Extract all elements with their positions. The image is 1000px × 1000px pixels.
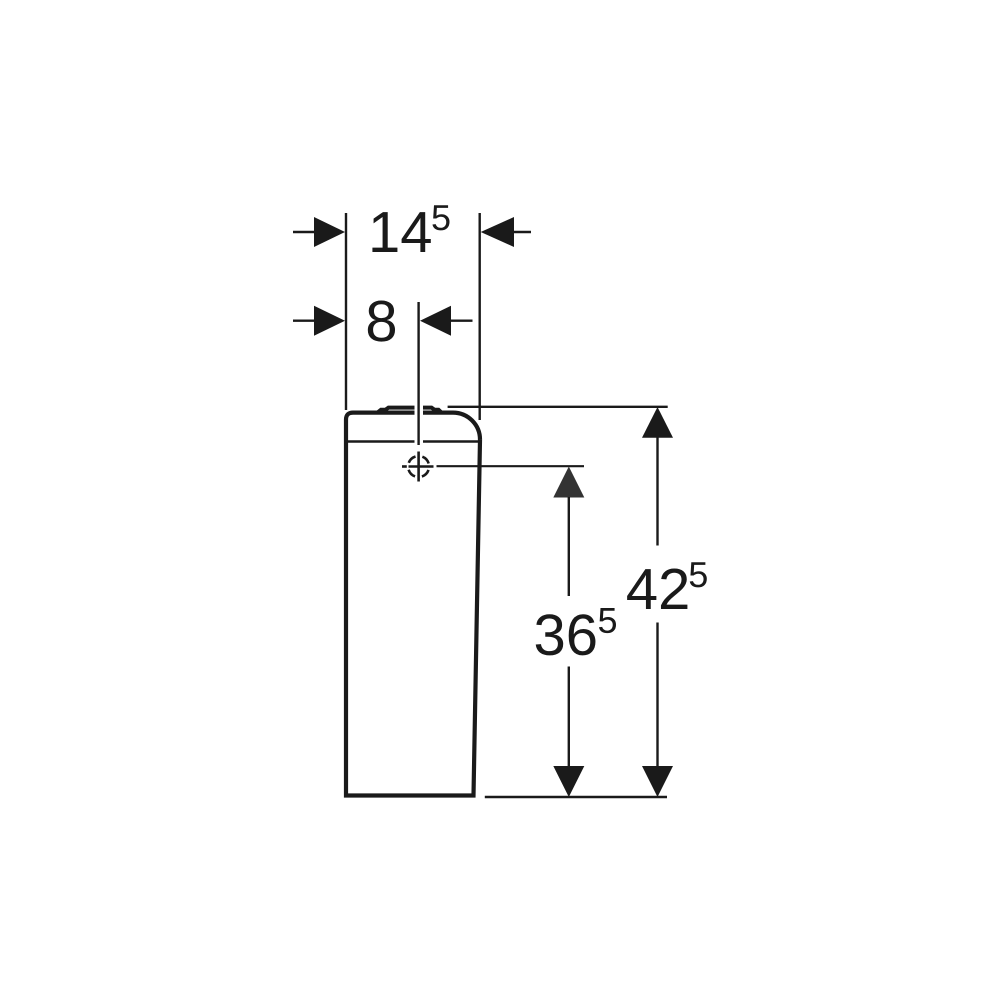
dim 36.5 lower line (568, 667, 570, 767)
dim 42.5 upper line (656, 438, 658, 546)
cistern lid bump left part (378, 408, 415, 413)
dim 36.5 up arrowhead (553, 467, 584, 498)
dim 8 left arrowhead (314, 306, 345, 336)
crosshair dashed circle (408, 456, 429, 477)
label 36.5 (536, 608, 616, 655)
cistern lid bump right part (423, 408, 442, 413)
crosshair horizontal line (409, 465, 434, 468)
cistern lid seam line right (423, 440, 479, 443)
dim 14.5 right tail (514, 231, 531, 233)
extension line middle x=418.6 (417, 302, 419, 445)
dim 42.5 lower line (656, 623, 658, 767)
crosshair vertical line (417, 452, 420, 482)
dim 8 right tail (451, 320, 473, 322)
dim 14.5 right arrowhead (481, 217, 514, 247)
extension line right x=479.7 (479, 213, 481, 420)
dim 42.5 down arrowhead (642, 766, 673, 797)
dim 14.5 left tail (293, 231, 316, 233)
cistern outline top right corner (423, 413, 480, 440)
dim 8 left tail (293, 320, 316, 322)
label 42.5 (627, 562, 707, 609)
dim 14.5 left arrowhead (314, 217, 345, 247)
crosshair horizontal dash (402, 465, 407, 468)
dim 36.5 upper line (568, 497, 570, 596)
dim 36.5 down arrowhead (553, 766, 584, 797)
dim 8 right arrowhead (420, 306, 451, 336)
dim 42.5 up arrowhead (642, 407, 673, 438)
extension line left x=346 (345, 213, 347, 410)
top reference line for 42.5 (448, 406, 668, 408)
bottom reference line (485, 796, 667, 798)
reference line from crosshair to 36.5 arrow (437, 465, 585, 467)
cistern outline left+bottom+right (346, 413, 480, 796)
cistern lid seam line left (346, 440, 415, 443)
label 8 (368, 301, 395, 342)
label 14.5 (372, 205, 449, 252)
